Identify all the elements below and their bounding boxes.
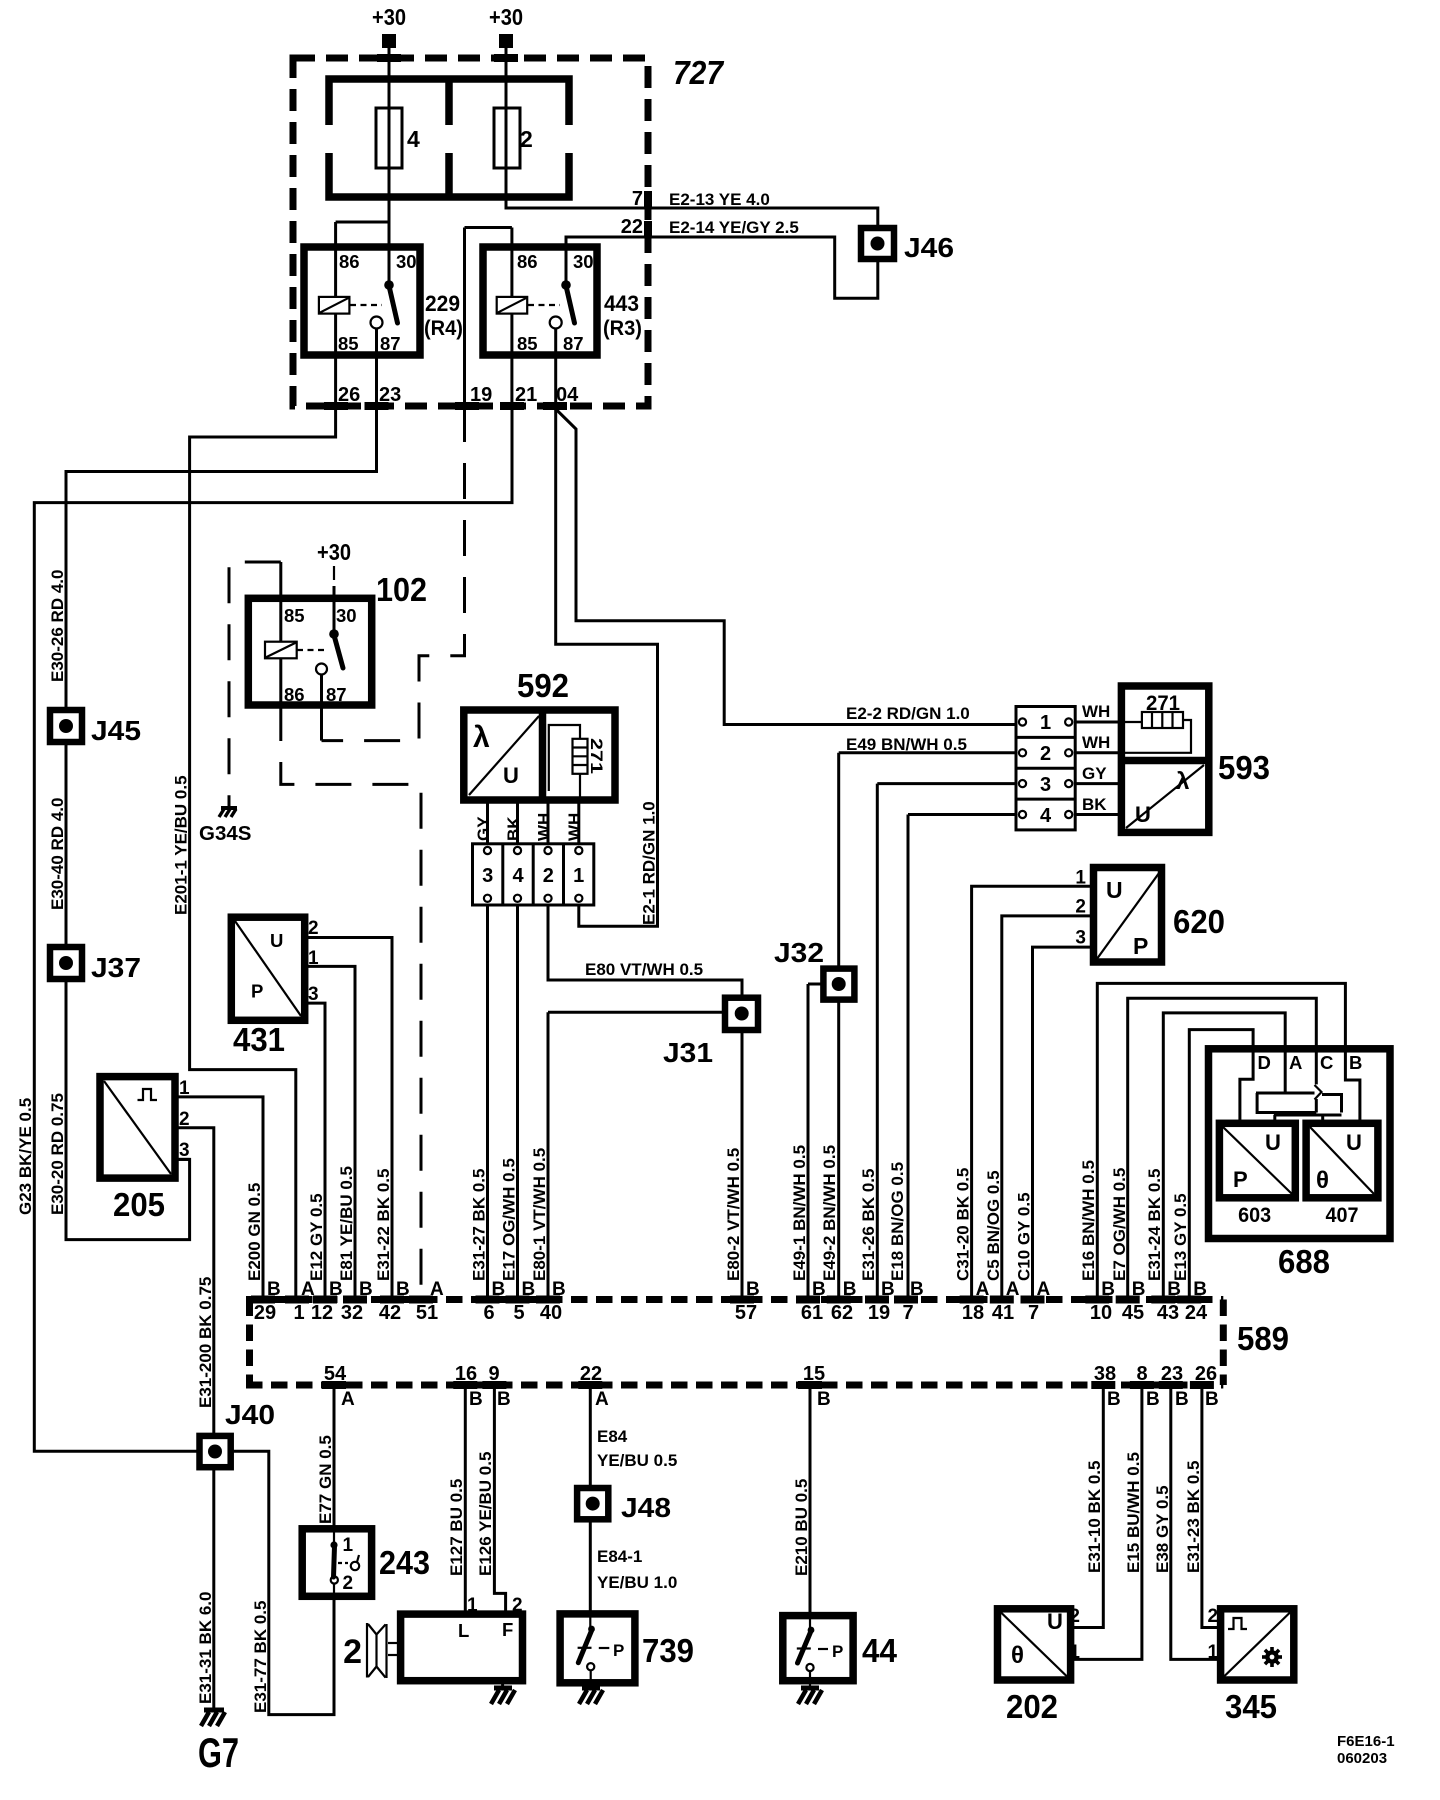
- svg-text:U: U: [1047, 1609, 1063, 1634]
- svg-text:620: 620: [1173, 903, 1225, 940]
- svg-text:2: 2: [308, 918, 319, 939]
- svg-text:B: B: [267, 1279, 281, 1300]
- svg-text:7: 7: [1028, 1302, 1039, 1324]
- svg-text:3: 3: [482, 865, 493, 887]
- svg-text:G7: G7: [198, 1729, 239, 1776]
- svg-text:U: U: [1265, 1130, 1281, 1155]
- svg-text:43: 43: [1157, 1302, 1179, 1324]
- svg-text:C5 BN/OG 0.5: C5 BN/OG 0.5: [984, 1170, 1003, 1281]
- svg-text:1: 1: [1069, 1642, 1080, 1663]
- svg-text:B: B: [746, 1279, 760, 1300]
- svg-text:E2-14 YE/GY 2.5: E2-14 YE/GY 2.5: [669, 218, 799, 237]
- svg-text:WH: WH: [1082, 733, 1110, 752]
- svg-text:WH: WH: [565, 813, 584, 841]
- svg-text:E126 YE/BU 0.5: E126 YE/BU 0.5: [476, 1452, 495, 1576]
- svg-text:P: P: [1133, 933, 1148, 959]
- svg-text:J40: J40: [225, 1399, 275, 1430]
- svg-text:GY: GY: [474, 816, 493, 841]
- svg-text:85: 85: [517, 333, 538, 354]
- svg-text:1: 1: [1040, 712, 1051, 734]
- svg-text:24: 24: [1185, 1302, 1208, 1324]
- svg-text:E84: E84: [597, 1427, 628, 1446]
- svg-text:2: 2: [512, 1595, 523, 1616]
- svg-text:229: 229: [425, 291, 460, 316]
- svg-text:G23 BK/YE 0.5: G23 BK/YE 0.5: [16, 1098, 35, 1215]
- svg-text:E2-2 RD/GN 1.0: E2-2 RD/GN 1.0: [846, 704, 970, 723]
- svg-text:U: U: [1346, 1130, 1362, 1155]
- svg-text:29: 29: [254, 1302, 276, 1324]
- svg-text:1: 1: [573, 865, 584, 887]
- svg-text:57: 57: [735, 1302, 757, 1324]
- svg-text:22: 22: [621, 216, 643, 238]
- svg-text:A: A: [595, 1389, 609, 1410]
- svg-text:40: 40: [540, 1302, 562, 1324]
- svg-text:C31-20 BK 0.5: C31-20 BK 0.5: [954, 1168, 973, 1281]
- svg-text:727: 727: [673, 54, 724, 91]
- svg-text:205: 205: [113, 1186, 165, 1223]
- svg-text:2: 2: [543, 865, 554, 887]
- svg-text:P: P: [613, 1641, 624, 1660]
- svg-text:060203: 060203: [1337, 1750, 1387, 1767]
- svg-text:E80-2 VT/WH 0.5: E80-2 VT/WH 0.5: [724, 1148, 743, 1281]
- svg-text:G34S: G34S: [199, 822, 251, 845]
- svg-text:B: B: [1349, 1052, 1362, 1073]
- svg-text:P: P: [251, 981, 263, 1002]
- svg-text:15: 15: [803, 1363, 825, 1385]
- svg-text:E16 BN/WH 0.5: E16 BN/WH 0.5: [1079, 1160, 1098, 1281]
- svg-text:+30: +30: [489, 4, 523, 30]
- svg-text:B: B: [1101, 1279, 1115, 1300]
- svg-text:87: 87: [563, 333, 584, 354]
- svg-text:F6E16-1: F6E16-1: [1337, 1733, 1395, 1750]
- svg-text:1: 1: [293, 1302, 304, 1324]
- svg-text:2: 2: [343, 1633, 362, 1671]
- svg-text:26: 26: [338, 384, 360, 406]
- svg-text:B: B: [1193, 1279, 1207, 1300]
- svg-text:E38 GY 0.5: E38 GY 0.5: [1153, 1485, 1172, 1573]
- svg-text:E127 BU 0.5: E127 BU 0.5: [447, 1479, 466, 1576]
- svg-text:WH: WH: [535, 813, 554, 841]
- svg-text:J46: J46: [904, 232, 954, 263]
- svg-text:A: A: [430, 1279, 444, 1300]
- svg-text:4: 4: [1040, 805, 1052, 827]
- svg-text:E80 VT/WH 0.5: E80 VT/WH 0.5: [585, 960, 703, 979]
- svg-text:2: 2: [1075, 897, 1086, 918]
- svg-text:E13 GY 0.5: E13 GY 0.5: [1171, 1193, 1190, 1281]
- svg-text:E30-26 RD 4.0: E30-26 RD 4.0: [48, 570, 67, 682]
- svg-text:E77 GN 0.5: E77 GN 0.5: [316, 1435, 335, 1524]
- svg-text:E84-1: E84-1: [597, 1547, 642, 1566]
- svg-text:B: B: [329, 1279, 343, 1300]
- svg-text:E17 OG/WH 0.5: E17 OG/WH 0.5: [500, 1158, 519, 1281]
- svg-text:603: 603: [1238, 1204, 1271, 1227]
- svg-text:85: 85: [284, 605, 305, 626]
- svg-text:61: 61: [801, 1302, 823, 1324]
- svg-text:2: 2: [520, 126, 533, 152]
- svg-text:44: 44: [862, 1632, 898, 1669]
- svg-text:E31-26 BK 0.5: E31-26 BK 0.5: [859, 1169, 878, 1281]
- svg-text:85: 85: [338, 333, 359, 354]
- svg-text:E31-24 BK 0.5: E31-24 BK 0.5: [1145, 1169, 1164, 1281]
- svg-text:443: 443: [604, 291, 639, 316]
- svg-text:202: 202: [1006, 1688, 1058, 1725]
- svg-text:U: U: [503, 763, 519, 788]
- svg-text:688: 688: [1278, 1243, 1330, 1280]
- svg-text:26: 26: [1195, 1363, 1217, 1385]
- svg-text:42: 42: [379, 1302, 401, 1324]
- svg-text:87: 87: [380, 333, 401, 354]
- svg-text:86: 86: [339, 251, 360, 272]
- svg-text:E7 OG/WH 0.5: E7 OG/WH 0.5: [1110, 1168, 1129, 1281]
- svg-text:32: 32: [341, 1302, 363, 1324]
- svg-text:19: 19: [868, 1302, 890, 1324]
- svg-text:A: A: [1289, 1052, 1302, 1073]
- svg-text:1: 1: [1208, 1642, 1219, 1663]
- svg-text:E49-2 BN/WH 0.5: E49-2 BN/WH 0.5: [820, 1145, 839, 1281]
- svg-text:B: B: [1205, 1389, 1219, 1410]
- svg-text:U: U: [1106, 877, 1123, 903]
- svg-text:E81 YE/BU 0.5: E81 YE/BU 0.5: [337, 1166, 356, 1281]
- svg-text:54: 54: [324, 1363, 347, 1385]
- svg-text:12: 12: [311, 1302, 333, 1324]
- svg-text:1: 1: [343, 1535, 354, 1556]
- svg-text:51: 51: [416, 1302, 438, 1324]
- svg-text:A: A: [301, 1279, 315, 1300]
- svg-text:E15 BU/WH 0.5: E15 BU/WH 0.5: [1124, 1452, 1143, 1573]
- svg-text:J32: J32: [774, 937, 824, 968]
- svg-text:A: A: [1037, 1279, 1051, 1300]
- svg-text:GY: GY: [1082, 764, 1107, 783]
- svg-text:1: 1: [467, 1595, 478, 1616]
- svg-text:WH: WH: [1082, 702, 1110, 721]
- svg-text:B: B: [522, 1279, 536, 1300]
- svg-text:YE/BU 1.0: YE/BU 1.0: [597, 1573, 677, 1592]
- svg-text:86: 86: [284, 684, 305, 705]
- svg-text:2: 2: [1040, 743, 1051, 765]
- svg-text:+30: +30: [372, 4, 406, 30]
- svg-text:E12 GY 0.5: E12 GY 0.5: [307, 1193, 326, 1281]
- svg-text:E31-200 BK 0.75: E31-200 BK 0.75: [196, 1277, 215, 1408]
- svg-text:λ: λ: [473, 721, 490, 754]
- svg-text:2: 2: [343, 1573, 354, 1594]
- svg-text:38: 38: [1094, 1363, 1116, 1385]
- svg-text:589: 589: [1237, 1320, 1289, 1357]
- svg-text:B: B: [1132, 1279, 1146, 1300]
- svg-text:E49-1 BN/WH 0.5: E49-1 BN/WH 0.5: [790, 1145, 809, 1281]
- svg-text:E80-1 VT/WH 0.5: E80-1 VT/WH 0.5: [530, 1148, 549, 1281]
- svg-text:BK: BK: [1082, 795, 1107, 814]
- svg-text:04: 04: [556, 384, 579, 406]
- svg-text:4: 4: [512, 865, 524, 887]
- svg-text:F: F: [502, 1619, 513, 1640]
- svg-text:30: 30: [573, 251, 594, 272]
- svg-text:B: B: [1175, 1389, 1189, 1410]
- svg-text:7: 7: [902, 1302, 913, 1324]
- svg-text:431: 431: [233, 1021, 285, 1058]
- svg-text:B: B: [469, 1389, 483, 1410]
- svg-text:243: 243: [379, 1544, 430, 1581]
- svg-text:E210 BU 0.5: E210 BU 0.5: [792, 1479, 811, 1576]
- svg-text:23: 23: [379, 384, 401, 406]
- svg-text:41: 41: [992, 1302, 1014, 1324]
- svg-text:87: 87: [326, 684, 347, 705]
- svg-text:J37: J37: [91, 952, 141, 983]
- svg-text:E31-31 BK 6.0: E31-31 BK 6.0: [196, 1592, 215, 1704]
- svg-text:10: 10: [1090, 1302, 1112, 1324]
- svg-text:A: A: [1006, 1279, 1020, 1300]
- svg-text:E49 BN/WH 0.5: E49 BN/WH 0.5: [846, 735, 967, 754]
- svg-text:21: 21: [515, 384, 537, 406]
- svg-text:6: 6: [483, 1302, 494, 1324]
- svg-text:J31: J31: [663, 1037, 713, 1068]
- svg-text:E31-10 BK 0.5: E31-10 BK 0.5: [1085, 1461, 1104, 1573]
- svg-text:23: 23: [1161, 1363, 1183, 1385]
- svg-text:θ: θ: [1011, 1642, 1024, 1669]
- svg-text:B: B: [396, 1279, 410, 1300]
- svg-text:2: 2: [1069, 1606, 1080, 1627]
- svg-text:22: 22: [580, 1363, 602, 1385]
- svg-text:B: B: [492, 1279, 506, 1300]
- svg-text:E2-13 YE 4.0: E2-13 YE 4.0: [669, 190, 770, 209]
- svg-text:E31-77 BK 0.5: E31-77 BK 0.5: [251, 1601, 270, 1713]
- svg-text:C: C: [1320, 1052, 1333, 1073]
- svg-text:YE/BU 0.5: YE/BU 0.5: [597, 1451, 677, 1470]
- svg-text:E2-1 RD/GN 1.0: E2-1 RD/GN 1.0: [640, 801, 659, 925]
- svg-text:E31-23 BK 0.5: E31-23 BK 0.5: [1184, 1461, 1203, 1573]
- svg-text:A: A: [976, 1279, 990, 1300]
- svg-text:U: U: [270, 930, 283, 951]
- svg-text:B: B: [359, 1279, 373, 1300]
- svg-text:BK: BK: [504, 816, 523, 841]
- svg-text:345: 345: [1225, 1688, 1277, 1725]
- svg-text:B: B: [1167, 1279, 1181, 1300]
- svg-text:5: 5: [513, 1302, 524, 1324]
- svg-text:B: B: [881, 1279, 895, 1300]
- svg-text:739: 739: [642, 1632, 694, 1669]
- svg-text:J48: J48: [621, 1492, 671, 1523]
- svg-text:86: 86: [517, 251, 538, 272]
- svg-text:B: B: [552, 1279, 566, 1300]
- svg-text:B: B: [497, 1389, 511, 1410]
- svg-text:593: 593: [1218, 749, 1270, 786]
- svg-text:3: 3: [1075, 928, 1086, 949]
- svg-text:B: B: [812, 1279, 826, 1300]
- svg-text:E200 GN 0.5: E200 GN 0.5: [245, 1183, 264, 1281]
- svg-text:30: 30: [396, 251, 417, 272]
- svg-text:E31-27 BK 0.5: E31-27 BK 0.5: [470, 1169, 489, 1281]
- svg-text:3: 3: [1040, 774, 1051, 796]
- svg-text:E201-1 YE/BU 0.5: E201-1 YE/BU 0.5: [172, 775, 191, 915]
- svg-text:9: 9: [488, 1363, 499, 1385]
- svg-text:19: 19: [470, 384, 492, 406]
- svg-text:592: 592: [517, 667, 569, 704]
- svg-text:E30-20 RD 0.75: E30-20 RD 0.75: [48, 1093, 67, 1215]
- svg-text:+30: +30: [317, 539, 351, 565]
- svg-text:2: 2: [1208, 1606, 1219, 1627]
- svg-text:(R4): (R4): [424, 317, 463, 340]
- svg-text:U: U: [1135, 802, 1151, 827]
- svg-text:J45: J45: [91, 715, 141, 746]
- svg-text:E18 BN/OG 0.5: E18 BN/OG 0.5: [888, 1162, 907, 1281]
- svg-text:102: 102: [376, 571, 427, 608]
- svg-text:7: 7: [632, 188, 643, 210]
- svg-text:B: B: [910, 1279, 924, 1300]
- svg-text:4: 4: [407, 126, 420, 152]
- svg-text:E31-22 BK 0.5: E31-22 BK 0.5: [374, 1169, 393, 1281]
- svg-text:E30-40 RD 4.0: E30-40 RD 4.0: [48, 798, 67, 910]
- svg-text:271: 271: [587, 738, 606, 774]
- svg-text:B: B: [817, 1389, 831, 1410]
- svg-text:L: L: [458, 1620, 469, 1641]
- svg-text:B: B: [843, 1279, 857, 1300]
- svg-text:62: 62: [831, 1302, 853, 1324]
- svg-text:16: 16: [455, 1363, 477, 1385]
- svg-text:D: D: [1258, 1052, 1271, 1073]
- svg-text:18: 18: [962, 1302, 984, 1324]
- svg-text:C10 GY 0.5: C10 GY 0.5: [1015, 1192, 1034, 1281]
- svg-text:λ: λ: [1176, 768, 1189, 795]
- svg-text:P: P: [832, 1642, 843, 1661]
- svg-text:B: B: [1146, 1389, 1160, 1410]
- svg-text:3: 3: [179, 1140, 190, 1161]
- svg-text:407: 407: [1326, 1204, 1359, 1227]
- svg-text:B: B: [1107, 1389, 1121, 1410]
- svg-text:θ: θ: [1316, 1167, 1329, 1194]
- svg-text:(R3): (R3): [603, 317, 642, 340]
- svg-text:P: P: [1233, 1167, 1248, 1192]
- svg-text:8: 8: [1136, 1363, 1147, 1385]
- svg-text:30: 30: [336, 605, 357, 626]
- svg-text:A: A: [341, 1389, 355, 1410]
- svg-text:45: 45: [1122, 1302, 1144, 1324]
